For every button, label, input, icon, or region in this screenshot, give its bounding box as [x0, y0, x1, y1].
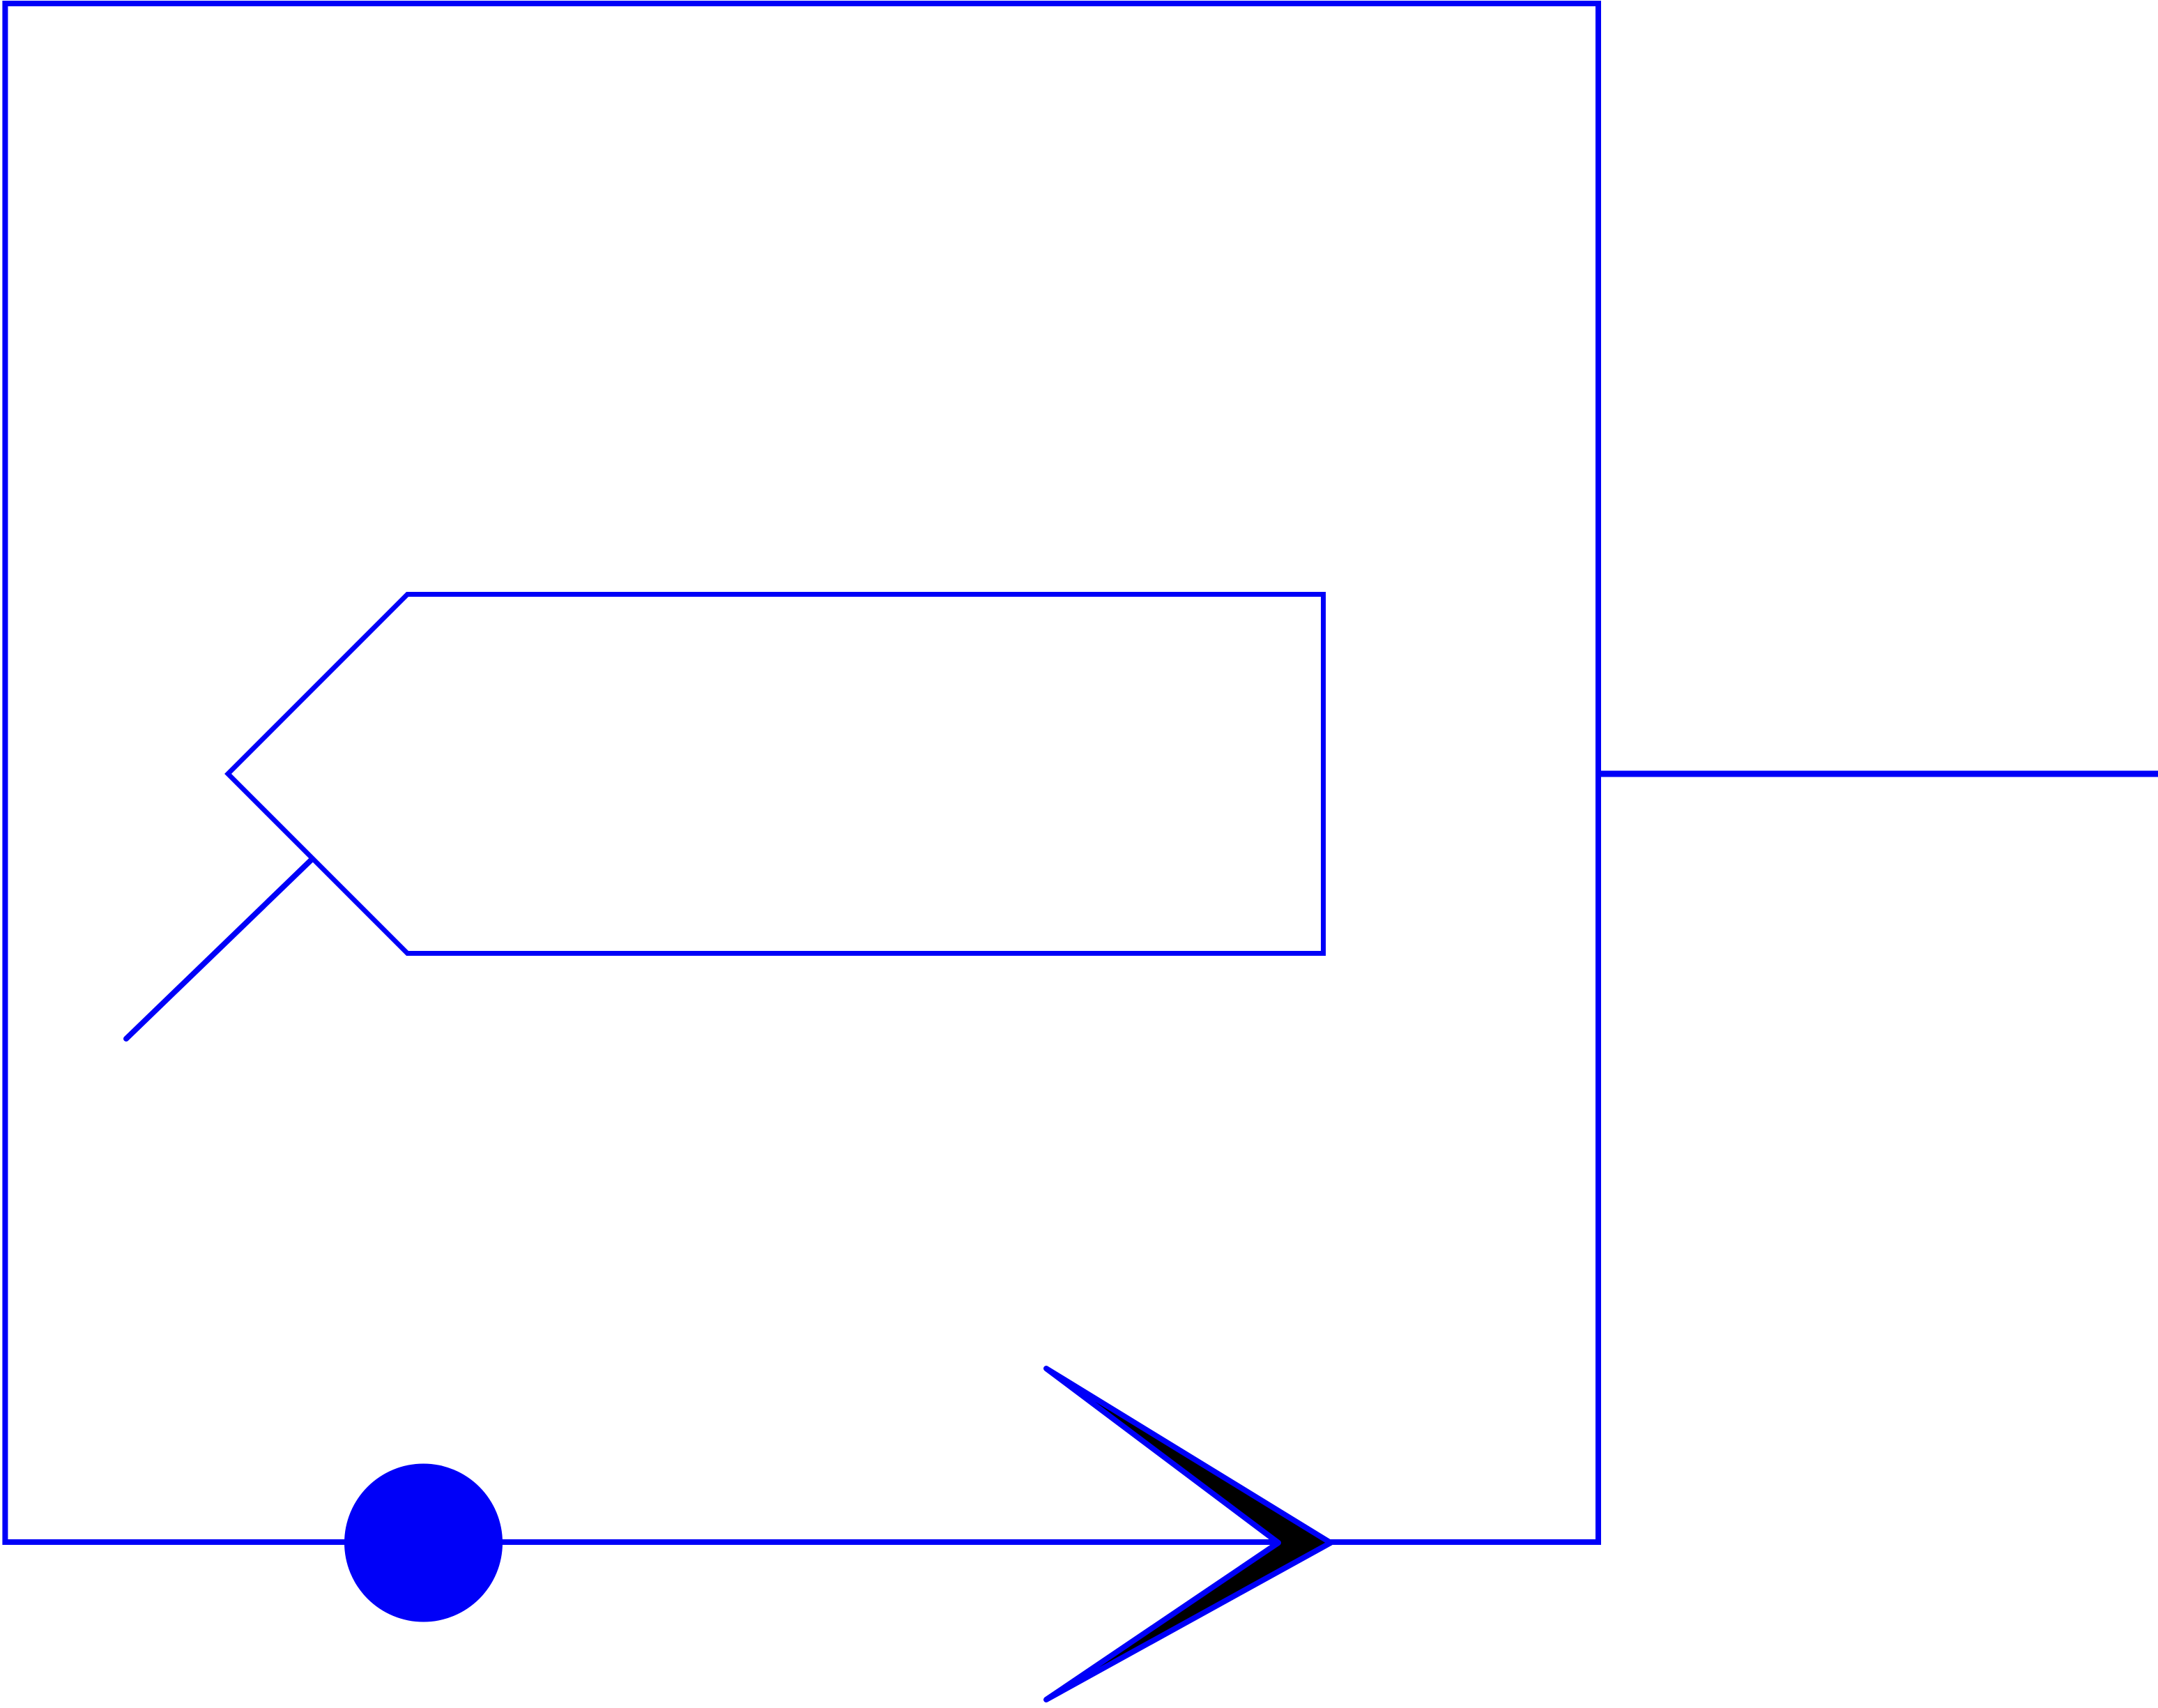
right wire from box edge to image edge — [1598, 771, 2158, 777]
arrowhead on bottom wire — [1046, 1368, 1331, 1700]
tick mark on pentagon lower edge — [126, 859, 312, 1039]
node dot on bottom wire — [344, 1464, 503, 1622]
outer box frame — [5, 3, 1598, 1542]
pentagon tag box — [228, 595, 1324, 954]
